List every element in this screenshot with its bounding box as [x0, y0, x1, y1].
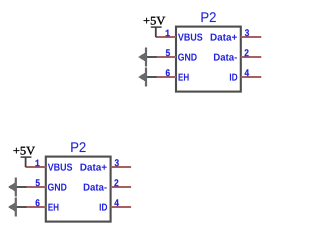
power symbol +5V (bottom) label [13, 147, 35, 155]
pin number 3 (top) [245, 29, 249, 36]
pin number 3 (bottom) [115, 159, 119, 166]
pin name VBUS (top) [178, 33, 202, 40]
pin name Data+ (top) [211, 34, 237, 41]
pin 2 Data- (top, right) [241, 56, 261, 58]
connector P2 (top instance) body [176, 27, 241, 92]
power symbol +5V (top) bar [151, 26, 162, 28]
power symbol +5V (bottom) bar [21, 156, 32, 158]
pin number 4 (bottom) [114, 199, 118, 206]
sheet-entry arrow at pin 5 (top) bar [145, 48, 147, 67]
pin name Data- (top) [214, 54, 237, 61]
sheet-entry arrow at pin 5 (top) triangle [138, 52, 146, 62]
sheet-entry arrow at pin 6 (bottom) triangle [8, 202, 16, 212]
pin 5 GND (top, left) [156, 56, 176, 58]
wire arrow to pin 5 (top) [146, 56, 157, 58]
pin 4 ID (bottom, right) [111, 206, 132, 208]
wire arrow to pin 5 (bottom) [16, 186, 26, 188]
pin 1 VBUS (top, left) [156, 36, 176, 38]
pin 3 Data+ (top, right) [241, 36, 261, 38]
pin number 6 (top) [166, 69, 170, 76]
pin name GND (top) [178, 53, 197, 60]
pin number 4 (top) [245, 69, 249, 76]
pin 6 EH (top, left) [156, 76, 176, 78]
sheet-entry arrow at pin 5 (bottom) bar [15, 178, 17, 197]
pin number 1 (top) [166, 30, 170, 37]
connector P2 (bottom instance) body [46, 157, 111, 222]
pin name GND (bottom) [48, 183, 67, 190]
sheet-entry arrow at pin 6 (top) triangle [138, 72, 146, 82]
pin number 5 (bottom) [36, 179, 40, 186]
pin number 5 (top) [166, 49, 170, 56]
pin number 6 (bottom) [36, 199, 40, 206]
pin 3 Data+ (bottom, right) [111, 166, 132, 168]
pin 1 VBUS (bottom, left) [26, 166, 46, 168]
wire +5V to pin 1 (top) [155, 27, 157, 37]
pin name ID (bottom) [100, 204, 107, 211]
pin number 1 (bottom) [36, 160, 40, 167]
pin 4 ID (top, right) [241, 76, 261, 78]
wire arrow to pin 6 (bottom) [16, 206, 26, 208]
pin 5 GND (bottom, left) [26, 186, 46, 188]
pin number 2 (bottom) [114, 179, 118, 186]
pin name EH (bottom) [48, 204, 58, 211]
sheet-entry arrow at pin 6 (bottom) bar [15, 198, 17, 217]
wire +5V to pin 1 (bottom) [25, 157, 27, 167]
power symbol +5V (top) label [144, 17, 166, 25]
refdes P2 (bottom) [71, 142, 85, 152]
pin name EH (top) [179, 74, 189, 81]
pin name ID (top) [230, 74, 237, 81]
sheet-entry arrow at pin 5 (bottom) triangle [8, 182, 16, 192]
wire arrow to pin 6 (top) [146, 76, 157, 78]
pin name Data+ (bottom) [80, 164, 106, 171]
pin 2 Data- (bottom, right) [111, 186, 132, 188]
pin number 2 (top) [245, 49, 249, 56]
pin name VBUS (bottom) [48, 163, 72, 170]
sheet-entry arrow at pin 6 (top) bar [145, 68, 147, 87]
pin 6 EH (bottom, left) [26, 206, 46, 208]
pin name Data- (bottom) [84, 184, 107, 191]
refdes P2 (top) [201, 12, 215, 22]
